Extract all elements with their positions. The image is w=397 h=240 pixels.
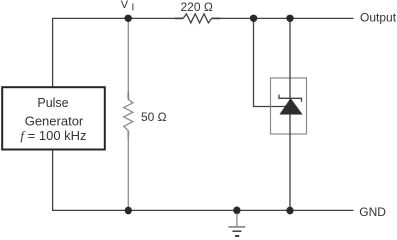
wire gate lead from top rail into diode package <box>254 18 291 106</box>
pulse generator box <box>2 87 105 149</box>
wire top rail right segment to Output <box>212 17 354 19</box>
junction dot bottom rail at 50 ohm <box>125 207 132 215</box>
wire 50 ohm branch upper (gray) <box>127 20 129 99</box>
diode D1 triangle <box>280 98 302 114</box>
svg-text:I: I <box>132 3 135 14</box>
junction dot top rail at gate lead <box>250 15 257 22</box>
junction dot bottom rail at ground symbol <box>233 207 240 215</box>
diode package box <box>271 78 307 134</box>
svg-text:220 Ω: 220 Ω <box>181 0 213 14</box>
ground stub (gray) <box>236 214 238 227</box>
junction dot bottom rail at diode <box>286 207 293 215</box>
junction dot top rail at diode <box>286 15 293 22</box>
svg-text:Pulse: Pulse <box>37 96 68 110</box>
junction dot node VI <box>125 15 132 22</box>
wire bottom ground rail <box>52 209 354 211</box>
resistor R1 220 ohm zigzag <box>183 14 211 23</box>
svg-text:GND: GND <box>359 205 386 219</box>
diode D1 zener cathode bar <box>279 95 302 102</box>
wire 50 ohm branch lower (gray) <box>127 131 129 209</box>
ground bar 1 (gray) <box>228 226 245 228</box>
wire pulse generator bottom to ground rail <box>52 150 54 210</box>
svg-text:V: V <box>121 0 129 11</box>
wire vertical through diode from top rail to ground rail <box>289 18 291 210</box>
resistor R1 lead stub right <box>212 17 221 19</box>
svg-text:50 Ω: 50 Ω <box>141 110 167 124</box>
resistor R2 lead stub bottom (gray) <box>127 131 129 138</box>
resistor R2 lead stub top (gray) <box>127 93 129 100</box>
svg-text:Generator: Generator <box>25 114 84 129</box>
ground bar 3 <box>235 235 239 237</box>
svg-text:Output: Output <box>360 10 397 24</box>
wire left vertical from top rail to pulse generator <box>52 18 54 87</box>
svg-text:f = 100 kHz: f = 100 kHz <box>20 128 86 143</box>
wire top rail left segment <box>52 17 183 19</box>
resistor R1 lead stub left <box>175 17 184 19</box>
resistor R2 50 ohm zigzag (gray) <box>124 99 133 130</box>
ground bar 2 <box>232 230 241 232</box>
